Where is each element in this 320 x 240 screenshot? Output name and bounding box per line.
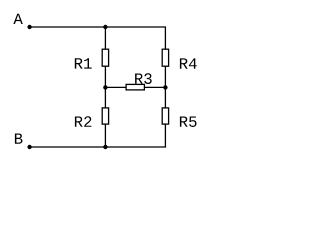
label R4 xyxy=(180,58,197,68)
resistor R1 body xyxy=(102,49,108,66)
wire left vertical branch through R1 and R2 xyxy=(104,27,106,147)
resistor R3 body xyxy=(126,84,144,90)
label R2 xyxy=(75,116,92,127)
label R5 xyxy=(180,117,197,128)
terminal dot node B xyxy=(27,145,31,149)
label R1 xyxy=(75,58,92,68)
terminal dot node A xyxy=(27,25,31,29)
resistor R5 body xyxy=(162,108,168,124)
junction bottom of left branch xyxy=(103,145,107,149)
junction top of left branch xyxy=(103,25,107,29)
node label A xyxy=(13,14,22,24)
junction left end of bridge xyxy=(103,85,107,89)
label R3 xyxy=(135,73,152,84)
wire middle bridge through R3 xyxy=(105,86,165,88)
junction right end of bridge xyxy=(163,85,167,89)
resistor R2 body xyxy=(102,108,108,124)
wire outer loop: A terminal to top-right corner, down right side, to B terminal xyxy=(30,27,166,147)
node label B xyxy=(15,134,23,144)
resistor R4 body xyxy=(162,49,168,66)
